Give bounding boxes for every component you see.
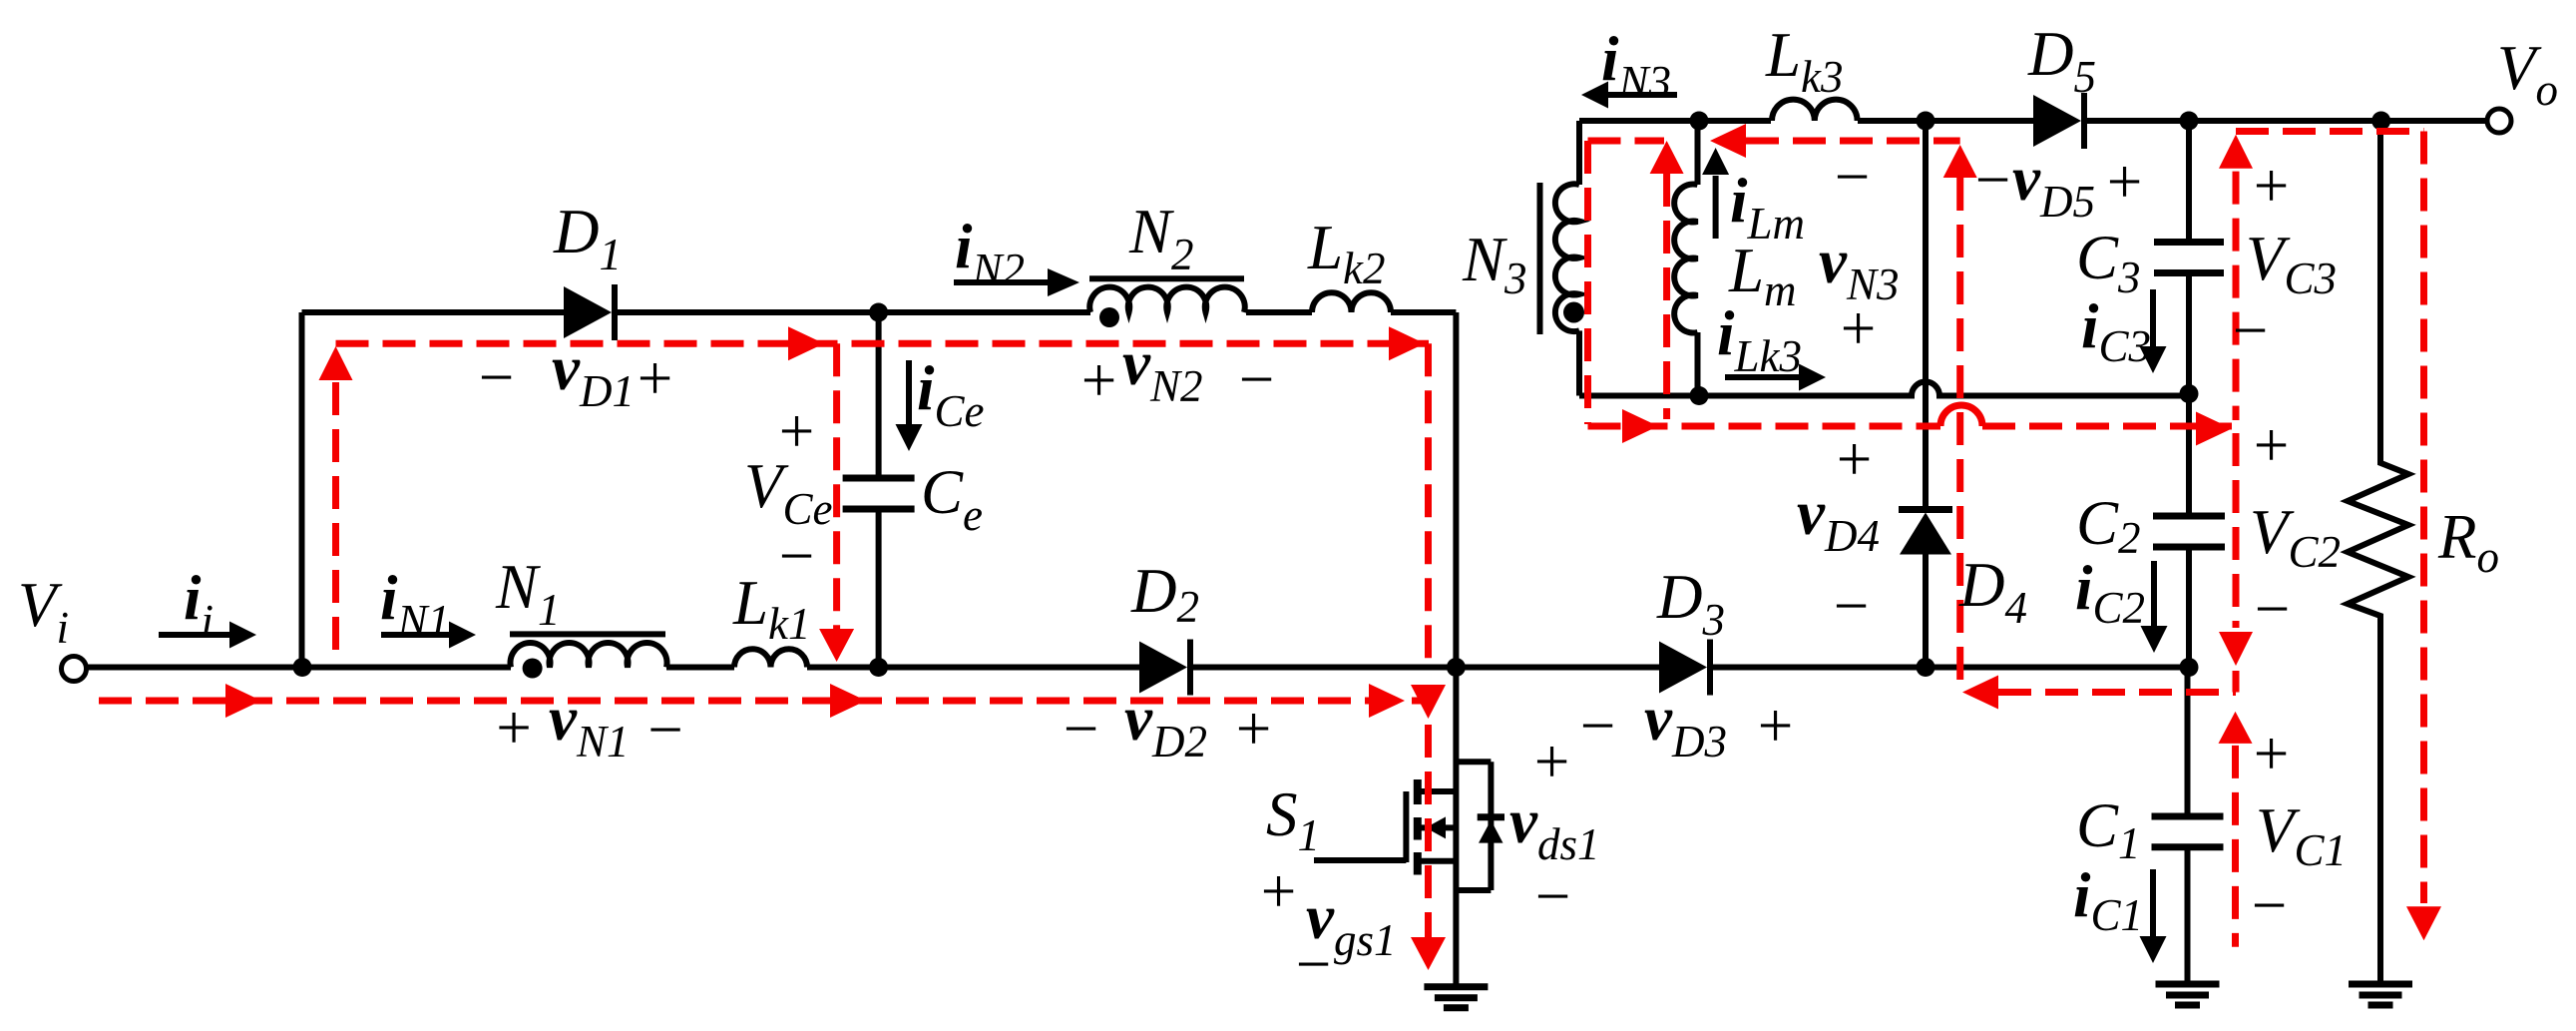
svg-text:+: +	[1833, 424, 1876, 494]
red path: below main wire back to D4 (left arrow)	[1962, 671, 2236, 710]
red path: C1 branch vertical (up arrow)	[2219, 712, 2253, 947]
wire node E to node F	[1926, 665, 2189, 671]
winding N2 (coupled inductor, with polarity dot)	[1089, 278, 1245, 327]
wire N2 to Lk2	[1246, 309, 1312, 315]
svg-text:S1: S1	[1266, 779, 1320, 860]
wire D2 to node C	[1190, 665, 1456, 671]
capacitor Ce	[843, 312, 915, 668]
svg-text:Ce: Ce	[921, 457, 983, 540]
label Lk3	[1765, 20, 1844, 102]
wire top-left: riser to D1	[302, 309, 570, 315]
red path: output top link	[2236, 128, 2424, 135]
svg-text:iC3: iC3	[2081, 291, 2151, 371]
svg-text:+: +	[2250, 151, 2293, 221]
svg-text:D1: D1	[553, 197, 622, 279]
winding N1 (coupled inductor, with polarity dot)	[510, 634, 667, 678]
ground below S1	[1424, 987, 1488, 1008]
label i_C2	[2075, 553, 2145, 633]
node L (C3 bottom / C2 top)	[2180, 384, 2199, 403]
label v_D3 with polarity	[1576, 684, 1797, 767]
current arrow i_N3 (leftward)	[1581, 82, 1677, 109]
label v_N1 with polarity	[492, 684, 686, 767]
svg-text:VC3: VC3	[2246, 224, 2337, 303]
svg-text:D2: D2	[1130, 556, 1199, 632]
wire main bottom: Vi to node A	[87, 665, 302, 671]
wire top: N3 to Lm node	[1579, 118, 1699, 124]
svg-text:iC2: iC2	[2075, 553, 2145, 633]
current arrow i_C1	[2140, 869, 2167, 963]
wire node B to N2	[879, 309, 1090, 315]
wire D1 to node B	[615, 309, 879, 315]
red path: long horizontal through transformer bottom (with hop)	[1588, 405, 2233, 446]
wire top: Lm node to Lk3	[1699, 118, 1771, 124]
wire node K to Vo terminal	[2381, 118, 2487, 124]
output Vo terminal	[2487, 109, 2511, 133]
inductor Lk3	[1772, 100, 1858, 121]
svg-text:C1: C1	[2076, 790, 2141, 868]
node E (D4 anode)	[1917, 658, 1935, 677]
wire D4 branch vertical	[1923, 121, 1929, 668]
red path: N3-Lm loop top link	[1588, 138, 1665, 145]
label D3	[1656, 562, 1725, 645]
current arrow i_C3	[2140, 289, 2167, 373]
current arrow i_i	[159, 622, 256, 649]
svg-text:C2: C2	[2076, 488, 2141, 563]
capacitor C3	[2154, 121, 2224, 394]
label Vi	[18, 570, 69, 653]
label S1	[1266, 779, 1320, 860]
svg-text:iC1: iC1	[2073, 860, 2143, 940]
label i_Lk3	[1717, 298, 1802, 381]
label N3	[1462, 225, 1527, 303]
inductor Lm (magnetizing)	[1674, 121, 1697, 396]
svg-text:Lk3: Lk3	[1765, 20, 1844, 102]
current arrow i_C2	[2141, 561, 2168, 653]
resistor Ro (zigzag)	[2348, 121, 2408, 984]
label i_N3	[1601, 24, 1671, 107]
svg-text:−: −	[1830, 571, 1873, 641]
wire node D to D2	[879, 665, 1142, 671]
label D1	[553, 197, 622, 279]
svg-text:vds1: vds1	[1509, 786, 1599, 869]
label V_C3 with polarity	[2229, 151, 2337, 365]
svg-text:−: −	[1971, 145, 2014, 215]
svg-text:−: −	[2229, 295, 2272, 365]
red path: drop into Ce (Lk1 node)	[819, 343, 854, 662]
current arrow i_Ce	[896, 360, 923, 451]
node A (input junction)	[293, 658, 312, 677]
wire N3 top lead	[1576, 121, 1582, 185]
current arrow i_Lk3	[1725, 364, 1826, 391]
node D (Ce bottom)	[869, 658, 888, 677]
node J (C3 top)	[2180, 112, 2199, 131]
label i_i	[184, 563, 214, 646]
node I (D4 cathode branch)	[1917, 112, 1935, 131]
wire N3 bottom lead	[1576, 330, 1582, 395]
wire Lk1 to node D	[807, 665, 879, 671]
svg-text:N2: N2	[1128, 197, 1194, 279]
wire node I to D5	[1926, 118, 2037, 124]
svg-text:iCe: iCe	[917, 353, 985, 436]
svg-text:N3: N3	[1462, 225, 1527, 303]
wire D5 to node J	[2084, 118, 2189, 124]
diode D1	[564, 284, 615, 340]
label i_C1	[2073, 860, 2143, 940]
label N1	[495, 552, 561, 635]
svg-text:C3: C3	[2076, 223, 2141, 302]
diode D3	[1659, 640, 1710, 696]
source Vi terminal	[62, 657, 87, 682]
svg-text:D3: D3	[1656, 562, 1725, 645]
svg-text:+: +	[1257, 856, 1300, 926]
inductor Lk2	[1312, 292, 1391, 312]
wire node J to node K	[2189, 118, 2381, 124]
node K (Ro top)	[2371, 112, 2390, 131]
svg-text:VC2: VC2	[2250, 497, 2341, 577]
node G (Lm top)	[1690, 112, 1709, 131]
svg-text:vD2: vD2	[1124, 684, 1207, 767]
label V_C2 with polarity	[2250, 410, 2341, 644]
label D4	[1958, 550, 2027, 633]
svg-text:vN1: vN1	[549, 684, 629, 767]
current arrow i_Lm (upward)	[1702, 148, 1729, 239]
svg-text:−: −	[1831, 142, 1874, 212]
diode D5	[2033, 93, 2084, 149]
svg-text:−: −	[2248, 870, 2291, 940]
transistor S1 (MOSFET)	[1314, 668, 1456, 987]
capacitor C1	[2152, 668, 2224, 985]
svg-text:+: +	[2250, 719, 2293, 788]
red path: input loop along bottom (Vi to switch)	[99, 684, 1429, 718]
svg-text:−: −	[2251, 574, 2294, 644]
label v_N3 with polarity	[1819, 142, 1899, 363]
label v_ds1 with polarity	[1509, 727, 1599, 931]
label N2	[1128, 197, 1194, 279]
label Ro	[2437, 502, 2499, 582]
diode D4	[1899, 510, 1952, 555]
label v_D1 with polarity	[475, 333, 676, 416]
svg-text:−: −	[1060, 694, 1102, 764]
red path: top horizontal under D1/N2	[336, 326, 1430, 360]
svg-text:+: +	[492, 693, 535, 763]
wire left riser node A up to D1 wire	[299, 312, 305, 668]
wire node A to N1	[302, 665, 511, 671]
label v_D2 with polarity	[1060, 684, 1275, 767]
current arrow i_N2	[954, 268, 1079, 296]
svg-text:Vo: Vo	[2497, 33, 2558, 115]
label C1	[2076, 790, 2141, 868]
label v_D5 with polarity	[1971, 144, 2146, 227]
label Lm	[1728, 236, 1797, 315]
label i_Ce	[917, 353, 985, 436]
svg-text:+: +	[1754, 691, 1797, 761]
svg-text:−: −	[475, 342, 518, 412]
svg-text:+: +	[2250, 410, 2293, 480]
svg-text:D4: D4	[1958, 550, 2027, 633]
label Vo	[2497, 33, 2558, 115]
svg-text:+: +	[1077, 345, 1120, 415]
label Ce	[921, 457, 983, 540]
svg-text:−: −	[644, 695, 686, 765]
red path: N3-Lm loop right side (up arrow)	[1650, 141, 1684, 419]
red path: C3/C2 branch vertical	[2219, 135, 2253, 666]
svg-text:Lk2: Lk2	[1307, 213, 1386, 293]
wire Lk3 to node I	[1858, 118, 1926, 124]
svg-text:VC1: VC1	[2256, 795, 2347, 875]
current arrow i_N1	[381, 622, 476, 649]
svg-text:−: −	[1292, 929, 1335, 999]
ground below Ro	[2349, 984, 2412, 1005]
label v_N2 with polarity	[1077, 328, 1278, 415]
svg-text:D5: D5	[2027, 19, 2096, 102]
svg-text:−: −	[775, 521, 818, 591]
node B (Ce top)	[869, 303, 888, 322]
svg-text:−: −	[1576, 691, 1619, 761]
svg-text:−: −	[1531, 861, 1574, 931]
svg-text:+: +	[1232, 694, 1275, 764]
svg-text:−: −	[1235, 344, 1278, 414]
svg-text:vD3: vD3	[1644, 684, 1727, 767]
svg-text:vD5: vD5	[2012, 144, 2095, 227]
wire D3 to node E	[1710, 665, 1926, 671]
red path: D1 clamp loop riser (left)	[319, 346, 353, 654]
label C2	[2076, 488, 2141, 563]
label i_N1	[380, 563, 450, 646]
label Lk2	[1307, 213, 1386, 293]
ground below C1	[2156, 984, 2220, 1005]
winding N3 (with core bar and polarity dot)	[1540, 183, 1585, 334]
svg-text:+: +	[634, 343, 676, 413]
node C (switch node)	[1447, 658, 1466, 677]
red path: switch branch vertical to ground	[1411, 343, 1446, 970]
label i_Lm	[1730, 166, 1805, 249]
red path: top line from D5 junction back to Lm (left arrow)	[1710, 124, 1960, 158]
wire node C to D3	[1456, 665, 1663, 671]
label V_Ce with polarity	[744, 396, 832, 591]
label D2	[1130, 556, 1199, 632]
svg-text:Ro: Ro	[2437, 502, 2499, 582]
wire N3-loop bottom (with hop over D4 branch)	[1579, 382, 2189, 396]
node H (Lm bottom)	[1690, 386, 1709, 405]
svg-text:+: +	[2103, 147, 2146, 217]
label C3	[2076, 223, 2141, 302]
capacitor C2	[2153, 394, 2225, 668]
diode D2	[1139, 640, 1190, 696]
label v_D4 with polarity	[1797, 424, 1880, 641]
wire riser down to node C	[1453, 312, 1459, 668]
label i_N2	[955, 212, 1025, 294]
label v_gs1 with polarity	[1257, 856, 1397, 999]
red path: vertical at D5 anode (up arrow)	[1943, 145, 1977, 691]
red path: output return via Ro (down arrow)	[2406, 132, 2441, 941]
svg-text:+: +	[1837, 293, 1880, 363]
label i_C3	[2081, 291, 2151, 371]
inductor Lk1	[734, 649, 807, 667]
body diode of S1	[1456, 762, 1504, 890]
wire Lk2 to riser	[1391, 309, 1456, 315]
svg-text:Vi: Vi	[18, 570, 69, 653]
wire N1 to Lk1	[666, 665, 734, 671]
svg-text:N1: N1	[495, 552, 561, 635]
red path: N3-Lm circulating loop left side	[1584, 141, 1591, 424]
label V_C1 with polarity	[2248, 719, 2347, 940]
node F (C1-C2 junction)	[2180, 658, 2199, 677]
label D5	[2027, 19, 2096, 102]
label Lk1	[732, 568, 811, 649]
